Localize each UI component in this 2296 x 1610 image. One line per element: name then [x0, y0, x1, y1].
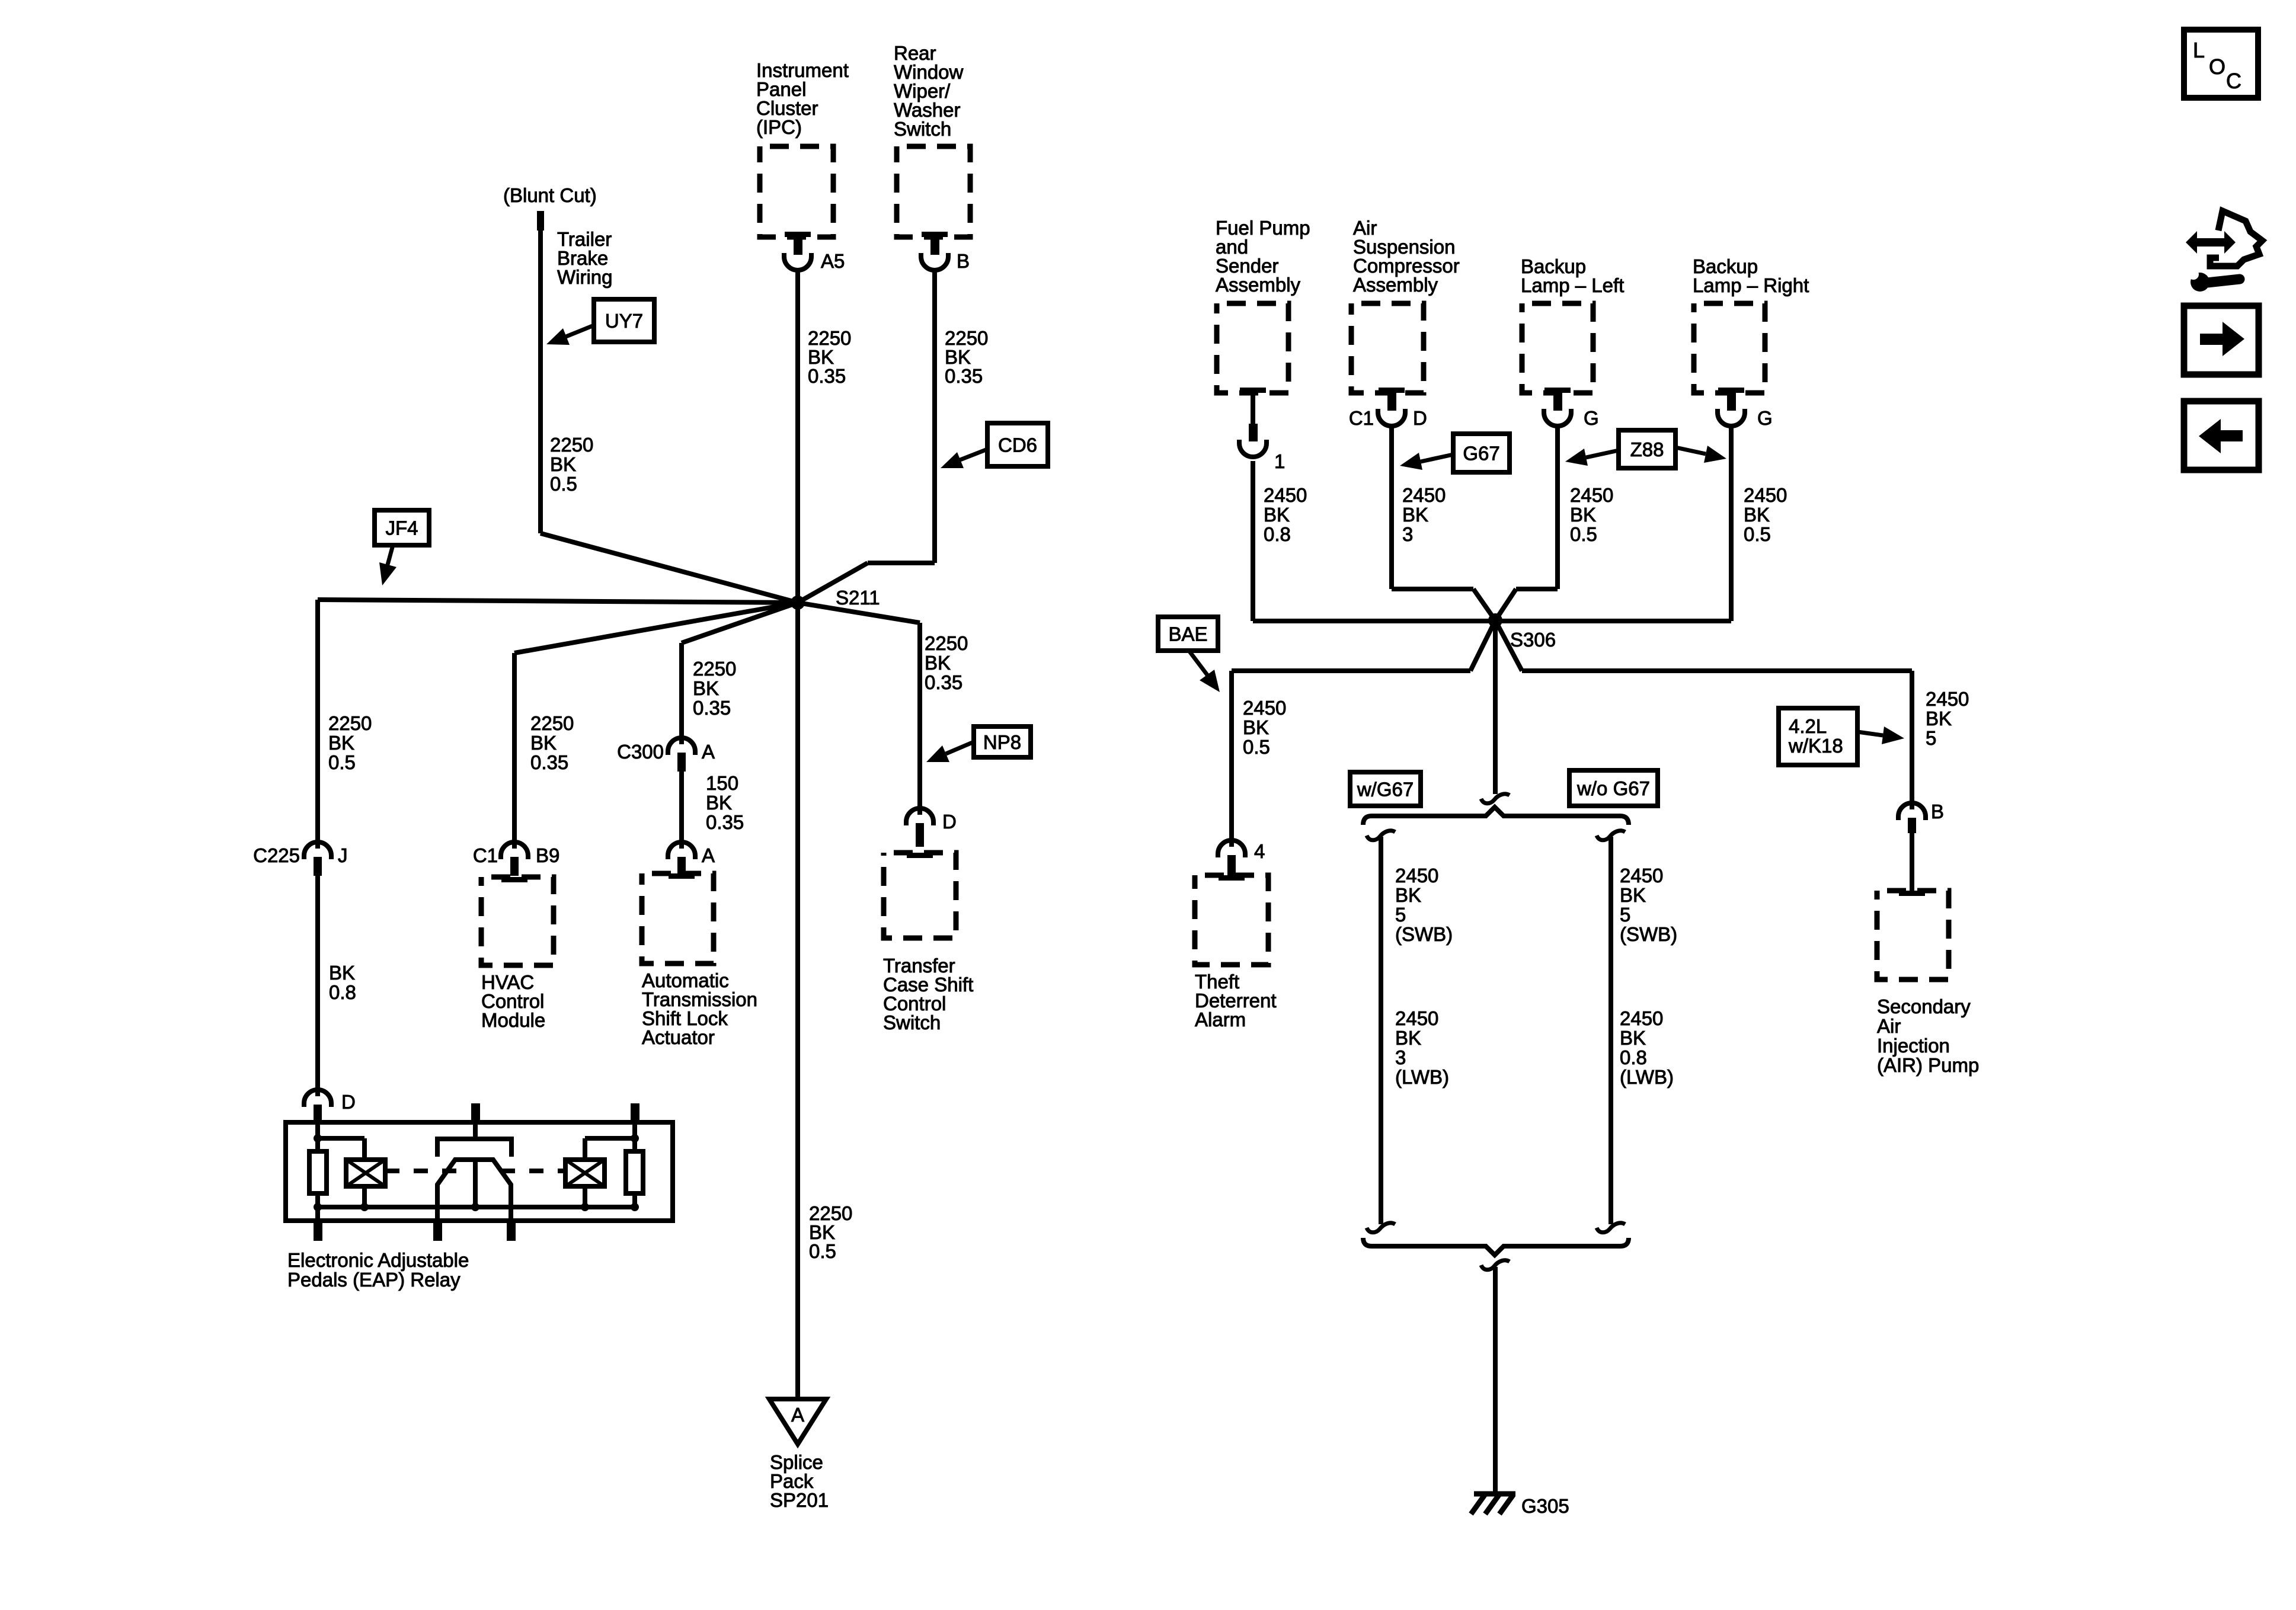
- dashed box: Fuel Pump and Sender Assembly: [1217, 303, 1288, 393]
- svg-text:BK: BK: [550, 453, 576, 475]
- svg-text:O: O: [2209, 55, 2225, 79]
- svg-text:S211: S211: [836, 587, 880, 609]
- svg-text:BK: BK: [693, 677, 719, 699]
- navigation icon: forward arrow box: [2184, 306, 2259, 375]
- svg-text:2450: 2450: [1926, 688, 1969, 710]
- wire: splice S306 to secondary air injection pump: [1495, 620, 1522, 671]
- EAP relay right resistor: [626, 1151, 643, 1193]
- svg-text:0.5: 0.5: [550, 473, 577, 495]
- wire: trailer brake wiring (blunt cut) down to splice S211: [538, 230, 543, 533]
- svg-text:G305: G305: [1521, 1495, 1569, 1517]
- svg-text:BAE: BAE: [1168, 623, 1207, 645]
- arrow from CD6 to wiper switch wire: [960, 449, 987, 460]
- vehicle service icon: jagged vehicle outline: [2210, 211, 2262, 266]
- svg-text:Alarm: Alarm: [1195, 1009, 1246, 1030]
- svg-text:Assembly: Assembly: [1353, 274, 1438, 296]
- svg-text:(LWB): (LWB): [1395, 1066, 1449, 1088]
- connector bar at theft deterrent alarm box top: [1219, 875, 1245, 881]
- LOC legend box: [2184, 30, 2258, 98]
- wire: C225 to EAP relay pin D, BK 0.8: [315, 875, 320, 1096]
- wire: rear wiper switch B to splice S211: [932, 268, 937, 563]
- svg-text:2450: 2450: [1395, 1007, 1438, 1029]
- inline connector C300 pin A: [668, 738, 695, 755]
- svg-text:BK: BK: [1402, 504, 1428, 526]
- option label box JF4: [375, 510, 429, 545]
- svg-text:0.8: 0.8: [1620, 1046, 1647, 1068]
- wire: splice S211 to C300: [682, 603, 798, 643]
- arrow from Z88 to backup lamp right wire: [1675, 447, 1706, 454]
- svg-text:Switch: Switch: [894, 118, 951, 140]
- EAP relay right coil (solenoid with X): [565, 1160, 605, 1186]
- dashed box: Secondary Air Injection (AIR) Pump: [1877, 891, 1949, 980]
- inline connector C225 pin J: [304, 842, 331, 859]
- svg-text:BK: BK: [925, 652, 951, 674]
- EAP relay bottom pin stubs: [314, 1221, 322, 1241]
- svg-text:D: D: [341, 1091, 356, 1113]
- svg-text:Wiring: Wiring: [557, 266, 613, 288]
- dashed box: Rear Window Wiper/Washer Switch: [897, 146, 970, 237]
- EAP relay top pin stubs: [471, 1103, 480, 1122]
- svg-text:C1: C1: [1349, 407, 1374, 429]
- svg-text:3: 3: [1395, 1046, 1406, 1068]
- svg-text:UY7: UY7: [605, 310, 643, 332]
- harness bottom brace: [1363, 1238, 1629, 1255]
- wire: fuel pump to splice S306: [1251, 461, 1255, 621]
- EAP relay internal wires left: [315, 1122, 320, 1151]
- splice S306: [1488, 613, 1502, 628]
- ground symbol G305: [1474, 1491, 1515, 1497]
- connector C1 pin D at air suspension compressor: [1379, 388, 1405, 393]
- svg-text:D: D: [1413, 407, 1427, 429]
- svg-text:BK: BK: [1264, 504, 1290, 526]
- svg-text:BK: BK: [1570, 504, 1596, 526]
- svg-text:Z88: Z88: [1630, 438, 1664, 460]
- svg-text:D: D: [942, 811, 957, 833]
- svg-text:G67: G67: [1463, 443, 1499, 465]
- svg-text:Lamp – Right: Lamp – Right: [1693, 274, 1809, 296]
- svg-text:BK: BK: [1744, 504, 1770, 526]
- svg-text:2250: 2250: [550, 434, 593, 456]
- svg-text:0.5: 0.5: [1570, 523, 1597, 545]
- wire: backup lamp left to splice S306: [1555, 424, 1560, 589]
- EAP relay internal wires right: [632, 1122, 637, 1151]
- svg-text:Pedals (EAP) Relay: Pedals (EAP) Relay: [287, 1269, 461, 1291]
- svg-text:CD6: CD6: [998, 434, 1037, 456]
- svg-text:S306: S306: [1510, 629, 1556, 651]
- svg-text:3: 3: [1402, 523, 1413, 545]
- EAP relay bottom bus: [318, 1205, 635, 1209]
- svg-text:0.5: 0.5: [1243, 736, 1270, 758]
- wire: splice S211 left to C225 (EAP branch): [318, 600, 798, 603]
- svg-text:A5: A5: [821, 250, 845, 272]
- connector pin A5 at IPC: [785, 232, 811, 237]
- svg-text:0.35: 0.35: [706, 811, 744, 833]
- wire: air suspension compressor to splice S306: [1389, 424, 1394, 589]
- wire: harness to ground G305: [1493, 1267, 1498, 1493]
- EAP relay left resistor: [309, 1151, 327, 1193]
- svg-text:B9: B9: [536, 844, 559, 866]
- svg-text:5: 5: [1395, 904, 1406, 926]
- svg-text:0.35: 0.35: [925, 671, 962, 693]
- svg-text:4.2L: 4.2L: [1789, 715, 1827, 737]
- svg-text:BK: BK: [1243, 716, 1269, 738]
- svg-text:B: B: [1931, 801, 1944, 822]
- svg-text:Switch: Switch: [883, 1012, 941, 1033]
- svg-text:C1: C1: [473, 844, 498, 866]
- option label box G67: [1453, 434, 1510, 472]
- connector bar at shift lock actuator box top: [669, 873, 695, 879]
- svg-text:A: A: [791, 1404, 804, 1426]
- svg-text:Lamp – Left: Lamp – Left: [1521, 274, 1624, 296]
- svg-text:0.5: 0.5: [809, 1240, 836, 1262]
- wire: connector B to secondary air pump box: [1910, 832, 1914, 891]
- wire: backup lamp right to splice S306: [1729, 424, 1734, 621]
- svg-text:A: A: [702, 844, 715, 866]
- connector pin A at shift lock actuator: [668, 842, 695, 859]
- svg-text:5: 5: [1926, 727, 1936, 749]
- option label box UY7: [594, 299, 654, 342]
- svg-text:2450: 2450: [1395, 865, 1438, 886]
- svg-text:2450: 2450: [1570, 484, 1613, 506]
- svg-text:Secondary: Secondary: [1877, 996, 1971, 1017]
- arrow from BAE to theft deterrent wire: [1189, 651, 1207, 675]
- connector C1 pin B9 at HVAC control module: [501, 842, 528, 859]
- svg-text:BK: BK: [1395, 884, 1421, 906]
- connector pin B at secondary air injection pump: [1898, 803, 1926, 820]
- svg-text:A: A: [702, 741, 715, 763]
- dashed box: Instrument Panel Cluster (IPC): [760, 146, 833, 237]
- dashed box: Theft Deterrent Alarm: [1195, 875, 1268, 965]
- svg-text:2450: 2450: [1264, 484, 1307, 506]
- svg-text:Module: Module: [481, 1009, 545, 1031]
- option label box w/o G67: [1569, 770, 1658, 806]
- left harness alternative line with break symbols: [1367, 831, 1395, 840]
- svg-text:BK: BK: [706, 792, 732, 814]
- connector pin 4 at theft deterrent alarm: [1218, 840, 1245, 857]
- svg-text:Assembly: Assembly: [1216, 274, 1301, 296]
- connector bar at transfer case box top: [907, 853, 933, 858]
- svg-text:5: 5: [1620, 904, 1630, 926]
- arrow from UY7 to trailer brake wire: [566, 325, 594, 337]
- dashed box: Automatic Transmission Shift Lock Actuator: [642, 873, 714, 964]
- vehicle service icon: wrench: [2207, 279, 2240, 283]
- splice pack SP201 triangle terminal A: [769, 1399, 826, 1444]
- svg-text:BK: BK: [1620, 1027, 1646, 1049]
- svg-text:(AIR) Pump: (AIR) Pump: [1877, 1054, 1979, 1076]
- svg-text:G: G: [1757, 407, 1773, 429]
- option label box CD6: [987, 423, 1048, 466]
- svg-text:BK: BK: [328, 732, 354, 754]
- wire break symbol above harness brace: [1481, 794, 1510, 804]
- wire: C300 to shift lock actuator, 150 BK 0.35: [679, 770, 684, 849]
- svg-text:0.35: 0.35: [693, 697, 731, 719]
- svg-text:Air: Air: [1877, 1015, 1901, 1037]
- svg-text:Injection: Injection: [1877, 1035, 1950, 1057]
- svg-text:w/G67: w/G67: [1357, 779, 1414, 801]
- svg-text:G: G: [1584, 407, 1599, 429]
- option label box Z88: [1619, 430, 1675, 468]
- svg-text:w/o G67: w/o G67: [1576, 777, 1650, 799]
- svg-text:0.5: 0.5: [328, 751, 356, 773]
- svg-text:J: J: [338, 844, 348, 866]
- svg-text:150: 150: [706, 772, 738, 794]
- svg-text:SP201: SP201: [770, 1489, 829, 1511]
- dashed box: Air Suspension Compressor Assembly: [1351, 303, 1424, 393]
- connector pin D at EAP relay: [304, 1090, 331, 1107]
- svg-text:B: B: [957, 250, 970, 272]
- EAP relay center switch top bracket: [473, 1122, 478, 1139]
- EAP relay mechanical linkage dashed line: [385, 1169, 456, 1173]
- arrow from JF4 to EAP relay wire: [388, 545, 393, 565]
- svg-text:BK: BK: [329, 962, 355, 984]
- svg-text:(SWB): (SWB): [1620, 923, 1677, 945]
- svg-text:2250: 2250: [328, 712, 372, 734]
- svg-text:BK: BK: [530, 732, 557, 754]
- connector pin G at backup lamp right: [1718, 388, 1744, 393]
- svg-text:NP8: NP8: [983, 731, 1021, 753]
- svg-text:BK: BK: [1620, 884, 1646, 906]
- connector bar at secondary air pump box top: [1899, 891, 1925, 896]
- option label box w/G67: [1350, 772, 1421, 806]
- svg-text:2250: 2250: [530, 712, 574, 734]
- svg-text:(Blunt Cut): (Blunt Cut): [503, 184, 597, 206]
- connector pin D at transfer case switch: [906, 808, 933, 825]
- connector pin G at backup lamp left: [1544, 388, 1571, 393]
- svg-text:Electronic Adjustable: Electronic Adjustable: [287, 1249, 469, 1271]
- svg-text:2250: 2250: [925, 632, 968, 654]
- wire: splice S211 to HVAC control module: [514, 603, 798, 653]
- svg-text:0.35: 0.35: [808, 365, 846, 387]
- svg-text:4: 4: [1254, 840, 1265, 862]
- dashed box: Transfer Case Shift Control Switch: [884, 853, 956, 938]
- svg-text:0.8: 0.8: [329, 981, 356, 1003]
- option label box 4.2L w/K18: [1779, 708, 1857, 765]
- vehicle service icon: double arrow: [2186, 231, 2236, 254]
- svg-text:2450: 2450: [1744, 484, 1787, 506]
- wire: splice S306 to theft deterrent alarm: [1470, 620, 1495, 671]
- svg-text:BK: BK: [1926, 708, 1952, 729]
- wire: splice S211 to transfer case shift control switch: [798, 603, 920, 623]
- svg-text:2450: 2450: [1402, 484, 1446, 506]
- svg-text:BK: BK: [1395, 1027, 1421, 1049]
- EAP relay left coil (solenoid with X): [346, 1160, 385, 1186]
- svg-text:L: L: [2193, 38, 2205, 62]
- arrow from G67 to air suspension wire: [1421, 454, 1453, 462]
- option label box BAE: [1158, 617, 1218, 651]
- svg-text:(IPC): (IPC): [756, 116, 802, 138]
- dashed box: HVAC Control Module: [481, 877, 554, 965]
- svg-text:2450: 2450: [1620, 1007, 1663, 1029]
- EAP relay junction dots: [314, 1134, 322, 1142]
- arrow from NP8 to transfer case wire: [946, 742, 974, 754]
- wire break symbol below harness brace: [1481, 1260, 1510, 1270]
- svg-text:0.8: 0.8: [1264, 523, 1291, 545]
- svg-text:C225: C225: [253, 844, 300, 866]
- blunt cut stub terminal: [537, 211, 544, 231]
- svg-text:(SWB): (SWB): [1395, 923, 1453, 945]
- splice S211: [791, 596, 805, 610]
- EAP relay center switch (trapezoid contact): [437, 1160, 511, 1221]
- arrow from Z88 to backup lamp left wire: [1586, 450, 1619, 457]
- connector bar at HVAC box top: [501, 877, 527, 882]
- svg-text:(LWB): (LWB): [1620, 1066, 1674, 1088]
- svg-text:0.5: 0.5: [1744, 523, 1771, 545]
- svg-text:C: C: [2226, 69, 2241, 93]
- svg-text:Actuator: Actuator: [642, 1026, 715, 1048]
- svg-text:0.35: 0.35: [530, 751, 568, 773]
- connector pin 1 at fuel pump: [1240, 388, 1266, 393]
- connector pin B at Rear Window Wiper/Washer Switch: [922, 232, 948, 237]
- svg-text:2250: 2250: [693, 658, 736, 680]
- right harness alternative line with break symbols: [1597, 831, 1625, 840]
- harness top brace: [1363, 807, 1629, 825]
- svg-text:2450: 2450: [1243, 697, 1286, 719]
- svg-text:2450: 2450: [1620, 865, 1663, 886]
- wire: IPC A5 to splice S211 and on to splice pack SP201: [795, 268, 800, 1398]
- navigation icon: back arrow box: [2184, 401, 2259, 470]
- svg-text:C300: C300: [617, 741, 664, 763]
- svg-text:JF4: JF4: [385, 517, 418, 539]
- dashed box: Backup Lamp - Right: [1694, 303, 1765, 393]
- svg-text:w/K18: w/K18: [1788, 735, 1843, 757]
- svg-text:0.35: 0.35: [945, 365, 983, 387]
- arrow from 4.2L w/K18 to secondary air wire: [1857, 732, 1883, 735]
- option label box NP8: [974, 726, 1031, 757]
- dashed box: Backup Lamp - Left: [1522, 303, 1593, 393]
- svg-text:1: 1: [1274, 450, 1285, 472]
- EAP relay box outline: [286, 1122, 673, 1221]
- wire: splice S306 down to ground harness: [1493, 620, 1498, 794]
